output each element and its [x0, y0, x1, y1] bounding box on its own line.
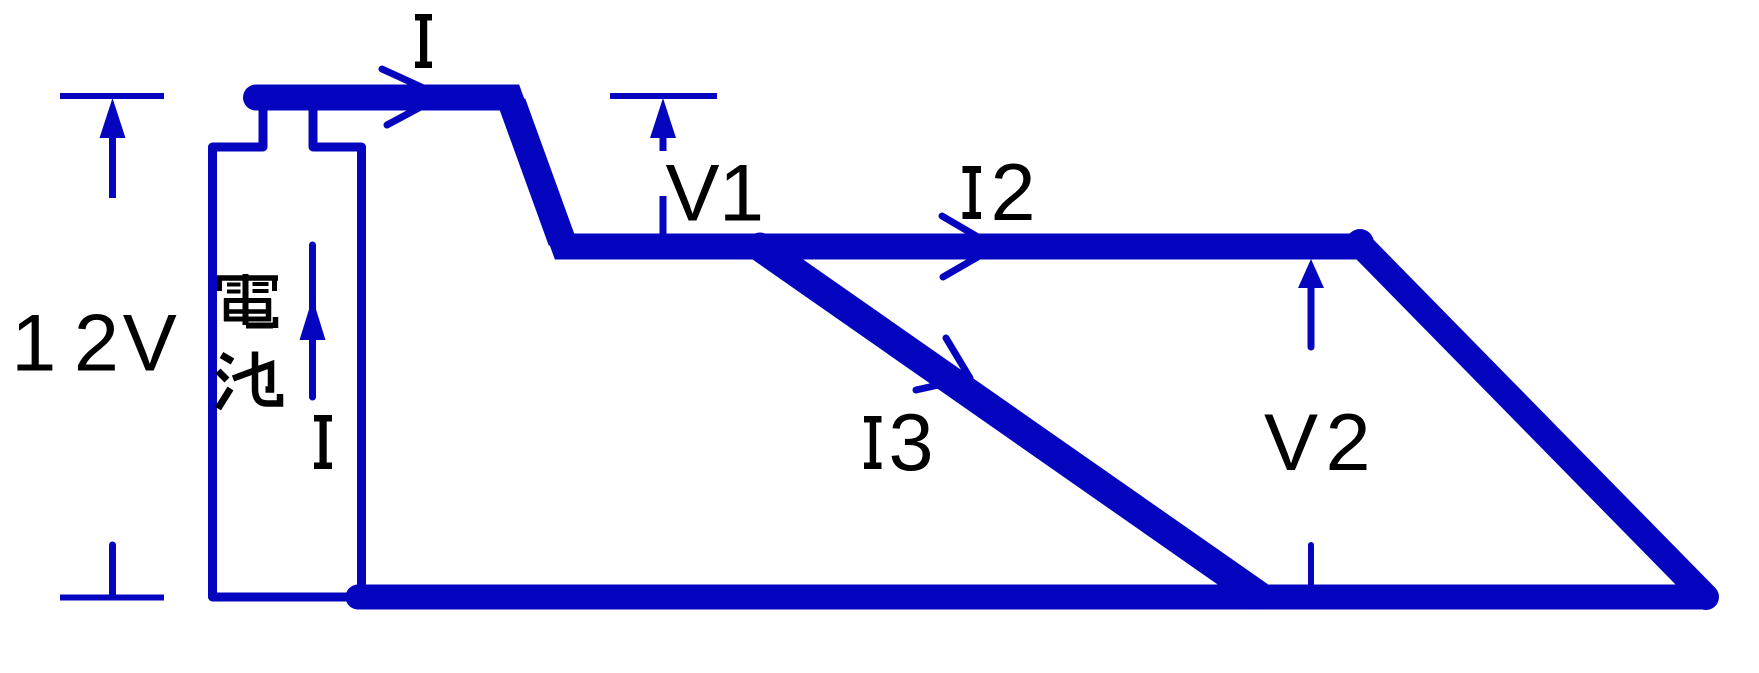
label 電 (kanji drawn strokes)	[217, 274, 278, 328]
svg-text:1: 1	[11, 299, 56, 389]
dimension bottom-left (12V lower tick)	[60, 545, 164, 598]
label I (battery current, serif drawn)	[314, 415, 332, 469]
svg-text:V: V	[1264, 398, 1318, 488]
label V1	[666, 149, 765, 239]
svg-text:V: V	[123, 299, 177, 389]
arrow I barbs (top wire current)	[382, 69, 441, 125]
wire bottom return	[358, 585, 1706, 610]
label I2 (serif I + sans 2)	[963, 166, 982, 219]
svg-text:2: 2	[74, 299, 119, 389]
label 池 (kanji drawn strokes)	[218, 352, 280, 409]
dimension top-left (12V upper)	[60, 96, 164, 198]
dimension V2	[1308, 288, 1315, 586]
wire main circuit (top wire, step down, plateau, right slope)	[256, 98, 1706, 598]
svg-text:V: V	[666, 149, 720, 239]
label I3 (serif I + sans 3)	[864, 416, 882, 469]
arrow I2 barbs	[942, 216, 995, 277]
svg-text:2: 2	[1326, 398, 1371, 488]
wire steep segment overlay (slightly thicker)	[512, 103, 562, 241]
label 12V	[11, 299, 177, 389]
label I (top, serif drawn)	[415, 14, 432, 68]
arrow I3 barbs	[916, 338, 970, 390]
arrow I (battery internal, up)	[309, 245, 316, 397]
wire corner bump at plateau-slope junction	[1346, 229, 1374, 257]
svg-text:1: 1	[719, 149, 764, 239]
svg-text:2: 2	[991, 148, 1036, 238]
wire I3 branch diagonal	[760, 247, 1258, 595]
label V2	[1264, 398, 1371, 488]
dimension V1	[610, 96, 717, 241]
battery outline	[213, 103, 362, 597]
svg-text:3: 3	[889, 398, 934, 488]
